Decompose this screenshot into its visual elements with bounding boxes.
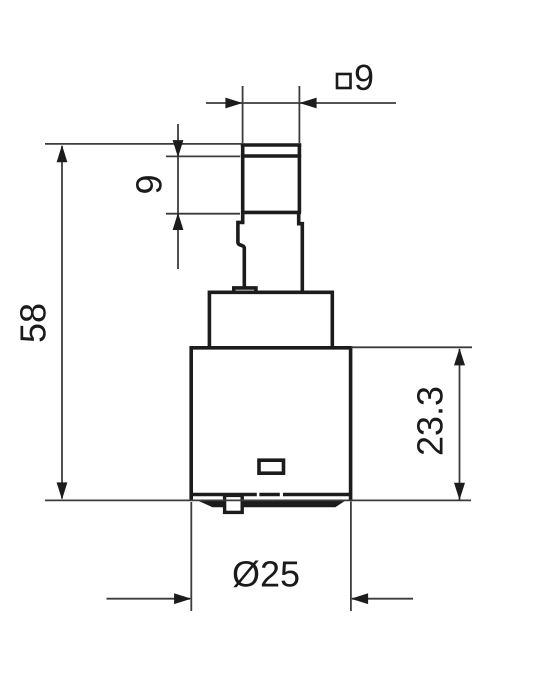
svg-text:9: 9 <box>354 57 374 98</box>
dimension 23.3 bottom arrow <box>454 483 465 500</box>
dimension 23.3 top arrow <box>454 348 465 365</box>
dimension 25 left arrow <box>174 593 191 604</box>
tab on collar top <box>234 288 256 293</box>
bottom seal band <box>198 501 345 508</box>
dimension 9 top arrow <box>173 140 184 157</box>
label 23.3 text <box>410 386 451 456</box>
bottom baseline extension <box>45 499 471 501</box>
stem lower-left profile <box>238 212 244 287</box>
dimension square-9 right arrow <box>299 98 316 109</box>
stem cap band <box>241 145 301 156</box>
label square-9 square symbol <box>337 74 351 88</box>
dimension 25 left line <box>107 598 191 600</box>
label 58 text <box>13 303 54 343</box>
svg-text:58: 58 <box>13 303 54 343</box>
dimension 25 extension lines <box>191 502 351 612</box>
collar <box>209 292 332 348</box>
body bottom edge <box>191 493 350 497</box>
svg-text:9: 9 <box>129 174 170 194</box>
dimension 9 bottom arrow <box>173 213 184 230</box>
main body <box>191 348 350 501</box>
svg-text:23.3: 23.3 <box>410 386 451 456</box>
dimension square-9 line <box>206 102 396 104</box>
dimension square-9 left arrow <box>225 98 242 109</box>
stem square shaft sides <box>243 143 300 213</box>
dimension 9 extension lines <box>166 156 240 213</box>
dimension 23.3 line <box>459 349 461 500</box>
label 9 text <box>129 174 170 194</box>
label diameter 25 text <box>232 554 300 595</box>
stem lower-right profile <box>299 212 303 292</box>
svg-text:Ø25: Ø25 <box>232 554 300 595</box>
dimension 25 right arrow <box>351 593 368 604</box>
bottom latch tab <box>225 495 243 512</box>
dimension 58 bottom arrow <box>57 482 68 499</box>
dimension 23.3 top extension line <box>351 346 472 348</box>
label square-9 text <box>354 57 374 98</box>
detail window rectangle <box>259 460 284 473</box>
dimension 25 right line <box>352 598 413 600</box>
dimension 58 top extension line <box>45 143 241 145</box>
stem shaft bottom line <box>241 211 301 215</box>
dimension square-9 extension lines <box>243 86 300 143</box>
dimension 9 line <box>177 124 179 269</box>
dimension 58 top arrow <box>57 145 68 162</box>
dimension 58 line <box>61 146 63 499</box>
